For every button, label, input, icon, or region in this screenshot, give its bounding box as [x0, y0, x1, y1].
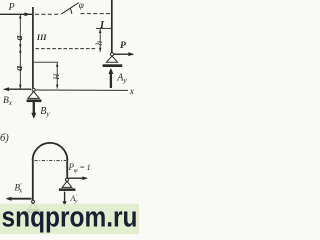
pin circle left (fig b) — [32, 200, 35, 203]
member arch left leg — [32, 160, 34, 201]
wire middle dashed line — [36, 48, 97, 50]
svg-text:snqprom.ru: snqprom.ru — [2, 202, 138, 234]
reaction By arrow — [33, 102, 35, 116]
support B hatch — [27, 99, 42, 102]
angle arc phi — [70, 8, 72, 14]
reaction A'y arrow — [64, 192, 66, 205]
support right hatch (fig b) — [59, 188, 76, 191]
watermark band — [0, 204, 139, 234]
support B triangle — [28, 91, 39, 98]
dimension line h — [99, 29, 101, 52]
reaction B'x arrow — [8, 198, 32, 200]
member right column — [111, 0, 113, 53]
support left hatch (fig b, under watermark) — [26, 210, 41, 213]
dimension line a a (left) — [19, 15, 21, 89]
member arch right leg — [66, 160, 68, 178]
reaction Bx arrow — [5, 88, 32, 90]
force P arrow (right) — [114, 53, 133, 55]
svg-text:III: III — [36, 33, 47, 42]
support right pin circle (fig b) — [66, 178, 69, 181]
svg-text:a: a — [14, 66, 25, 71]
svg-text:P: P — [120, 41, 126, 51]
wire top dashed line (right part) — [81, 13, 112, 15]
tick under label I — [96, 27, 112, 29]
x axis line — [36, 89, 129, 91]
wire top dashed line (left part) — [35, 13, 61, 15]
angle line phi — [62, 3, 79, 14]
svg-text:φ: φ — [79, 1, 84, 11]
svg-text:P: P — [8, 2, 15, 13]
svg-text:x: x — [129, 87, 135, 97]
member arch arc — [33, 143, 68, 160]
reaction Ay arrow — [110, 70, 112, 88]
wire dash-dot springing line — [35, 159, 67, 161]
svg-text:h: h — [94, 40, 104, 45]
support B pin circle — [32, 88, 35, 91]
force P_phi arrow — [69, 177, 87, 179]
force P arrow (top left) — [0, 12, 32, 16]
support A triangle — [106, 56, 117, 62]
support A hatch — [103, 64, 123, 67]
support right triangle (fig b) — [62, 181, 72, 187]
svg-text:б): б) — [0, 133, 9, 144]
svg-text:a: a — [14, 36, 25, 41]
support A pin circle — [110, 53, 113, 56]
support left triangle (fig b, under watermark) — [28, 203, 39, 210]
member left column — [32, 7, 34, 88]
extension line for H — [34, 61, 58, 63]
dimension line H — [56, 63, 58, 89]
